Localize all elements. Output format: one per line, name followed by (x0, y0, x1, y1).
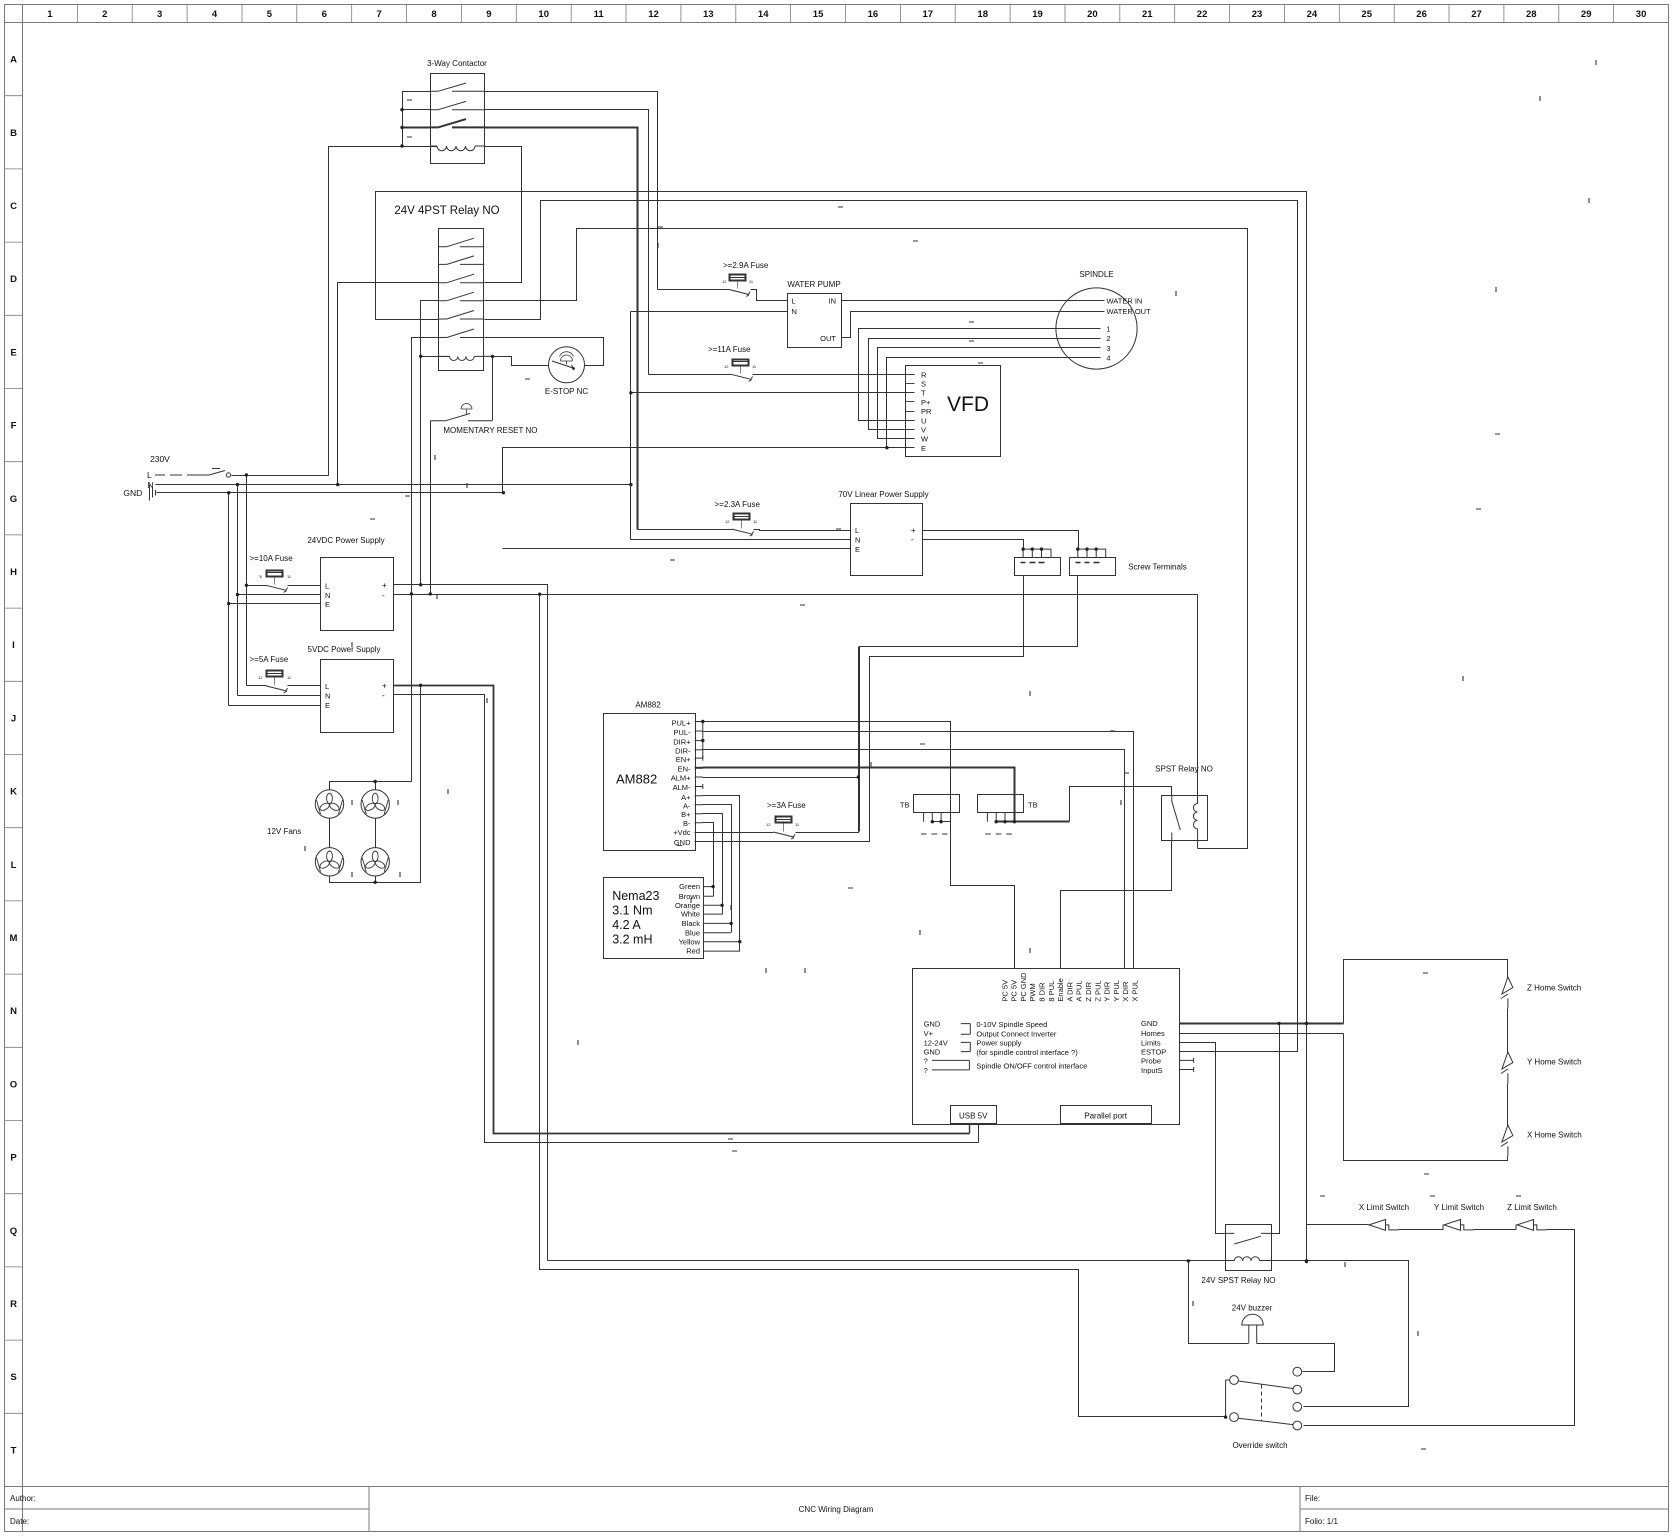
svg-text:Parallel port: Parallel port (1084, 1112, 1127, 1121)
svg-text:24V buzzer: 24V buzzer (1232, 1304, 1273, 1313)
wire N rail to relay pole3 left (338, 283, 439, 485)
AM882 driver box (604, 714, 696, 851)
svg-text:1: 1 (47, 9, 53, 20)
override switch link dashed (1261, 1385, 1263, 1422)
E-STOP NC pushbutton (549, 347, 585, 383)
override switch blades (1238, 1381, 1293, 1425)
svg-text:W: W (921, 435, 929, 444)
wire Y to Z limit (1474, 1229, 1517, 1231)
svg-text:ALM+: ALM+ (671, 774, 691, 783)
fan M4 (361, 848, 389, 876)
wire relay coil left tap (421, 356, 450, 358)
wire TB2 pins to SPST relay switch top (997, 821, 1070, 823)
svg-text:E: E (855, 545, 860, 554)
wire fans top bus to 24V- rail (330, 782, 412, 790)
svg-text:GND: GND (924, 1019, 941, 1028)
wire reset left to 24V- bus (430, 421, 432, 594)
wire X to Y limit (1399, 1229, 1444, 1231)
svg-text:PR: PR (921, 407, 932, 416)
svg-text:D: D (10, 274, 17, 285)
bracket spindle on/off (932, 1060, 969, 1070)
wire 70V+ to screw block2 (923, 531, 1079, 550)
wire Z limit to override contact 4 (1304, 1230, 1575, 1426)
wire A- to Black Blue pair (695, 805, 731, 933)
contactor switch pole 3 (430, 119, 484, 127)
wire spindle 2 to VFD V (869, 339, 1101, 430)
svg-text:15: 15 (813, 9, 824, 20)
svg-text:Orange: Orange (675, 901, 700, 910)
svg-text:?: ? (924, 1066, 928, 1075)
wire EN- to TB2 (695, 767, 703, 769)
USB 5V box (951, 1106, 997, 1124)
wire GND drop to supplies (228, 493, 230, 706)
relay K2 switch pole 6 (439, 329, 484, 338)
svg-text:24V SPST Relay NO: 24V SPST Relay NO (1201, 1276, 1275, 1285)
wire N to 24VDC N (238, 594, 321, 596)
svg-text:16: 16 (868, 9, 879, 20)
svg-text:+: + (382, 581, 387, 590)
fan M2 (361, 790, 389, 818)
svg-text:L: L (855, 526, 859, 535)
svg-text:X Home Switch: X Home Switch (1527, 1131, 1582, 1140)
svg-text:P: P (10, 1153, 17, 1164)
wire N rail to VFD T (631, 392, 915, 394)
svg-text:12: 12 (766, 822, 771, 827)
svg-text:L: L (325, 682, 329, 691)
svg-text:G: G (10, 494, 17, 505)
SPST relay NO box (1162, 796, 1208, 841)
svg-text:30: 30 (1636, 9, 1647, 20)
svg-text:GND: GND (674, 838, 691, 847)
svg-text:Y DIR: Y DIR (1103, 981, 1112, 1001)
70V linear power supply box (851, 504, 923, 576)
svg-text:9: 9 (486, 9, 491, 20)
svg-text:>=5A Fuse: >=5A Fuse (250, 655, 289, 664)
svg-text:PUL-: PUL- (673, 728, 691, 737)
svg-text:Red: Red (686, 947, 700, 956)
svg-text:E: E (325, 701, 330, 710)
svg-text:P+: P+ (921, 398, 931, 407)
wire number ticks (370, 100, 1521, 1449)
svg-text:Y Limit Switch: Y Limit Switch (1434, 1203, 1484, 1212)
contactor switch pole 1 (430, 83, 484, 91)
svg-text:2: 2 (102, 9, 107, 20)
svg-text:+: + (382, 682, 387, 691)
wire relay coil right to E-STOP and reset (493, 357, 549, 366)
svg-text:PC 5V: PC 5V (1010, 980, 1019, 1002)
svg-text:22: 22 (1197, 9, 1208, 20)
svg-text:-: - (911, 535, 914, 544)
svg-text:12: 12 (722, 279, 727, 284)
svg-text:Spindle ON/OFF control interfa: Spindle ON/OFF control interface (976, 1061, 1087, 1070)
svg-text:F: F (11, 421, 17, 432)
svg-text:23: 23 (1252, 9, 1263, 20)
breakout board box (913, 969, 1180, 1125)
svg-text:14: 14 (758, 9, 769, 20)
wire contactor pole3 out to 2.3A fuse feed (485, 128, 638, 530)
svg-text:27: 27 (1471, 9, 1482, 20)
svg-text:EN+: EN+ (676, 755, 691, 764)
svg-text:8: 8 (431, 9, 436, 20)
wire 24V+ rail to buzzer (1189, 1261, 1249, 1344)
svg-text:+Vdc: +Vdc (673, 828, 691, 837)
svg-text:AM882: AM882 (635, 701, 661, 710)
contactor coil (430, 146, 484, 151)
wire N rail to pump N (631, 311, 788, 313)
svg-text:R: R (921, 370, 927, 379)
Z home switch (1501, 977, 1513, 1008)
svg-text:IN: IN (829, 297, 837, 306)
svg-text:Z Home Switch: Z Home Switch (1527, 984, 1581, 993)
wire number tick verticals (305, 60, 1596, 1336)
wire reset right to relay coil right (492, 357, 494, 421)
wire relay pole5 left long loop to limit/GND rail (376, 192, 1307, 1262)
wire pump OUT to spindle WATER OUT (842, 312, 1105, 338)
wire N riser (630, 312, 632, 540)
wire spindle 1 to VFD U (859, 329, 1101, 421)
svg-text:S: S (10, 1372, 16, 1383)
svg-text:4: 4 (212, 9, 218, 20)
wire spindle 3 to VFD W (878, 348, 1101, 439)
wire breakout GND to 24V SPST relay right (1271, 1024, 1280, 1234)
svg-text:File:: File: (1305, 1494, 1320, 1503)
svg-text:B-: B- (683, 819, 691, 828)
svg-text:Z Limit Switch: Z Limit Switch (1507, 1203, 1557, 1212)
wire PUL+ DIR+ EN+ jumper (695, 722, 703, 759)
contactor left rail (403, 92, 431, 147)
wire relay pole6 left to 24V- bus (412, 338, 439, 782)
svg-text:Z PUL: Z PUL (1093, 980, 1102, 1001)
bracket power supply (961, 1042, 971, 1051)
svg-text:L: L (147, 470, 152, 480)
wire contactor coil right to relay pole3 (485, 147, 522, 283)
svg-text:A PUL: A PUL (1075, 980, 1084, 1001)
wire N to 5VDC N (238, 695, 321, 697)
svg-text:N: N (325, 591, 330, 600)
svg-text:E-STOP NC: E-STOP NC (545, 387, 588, 396)
svg-text:12V Fans: 12V Fans (267, 827, 301, 836)
svg-text:2: 2 (1106, 334, 1110, 343)
svg-text:Author:: Author: (10, 1494, 36, 1503)
water pump box (788, 294, 842, 348)
svg-text:TB: TB (1028, 800, 1038, 809)
svg-text:PWM: PWM (1028, 983, 1037, 1001)
svg-text:ESTOP: ESTOP (1141, 1048, 1166, 1057)
svg-text:WATER PUMP: WATER PUMP (787, 280, 840, 289)
wire screw block1 bottom to AM882 GND riser (695, 576, 1024, 842)
Z limit switch (1516, 1220, 1547, 1231)
svg-text:WATER IN: WATER IN (1107, 297, 1143, 306)
svg-text:L: L (11, 860, 17, 871)
Parallel port box (1061, 1106, 1152, 1124)
svg-text:GND: GND (1141, 1019, 1158, 1028)
ground symbol (150, 485, 156, 501)
svg-text:12: 12 (648, 9, 659, 20)
wire GND to 5VDC E (229, 705, 321, 707)
wire GND to 70V E (503, 548, 851, 550)
wire L to riser (232, 475, 329, 477)
svg-text:3: 3 (157, 9, 162, 20)
wire L with disconnect switch (155, 474, 209, 476)
svg-text:>=2.3A Fuse: >=2.3A Fuse (715, 500, 761, 509)
3-way contactor K1 box (431, 74, 485, 164)
Y home switch (1501, 1052, 1513, 1083)
svg-text:SPST Relay NO: SPST Relay NO (1155, 765, 1213, 774)
wire DIR- to breakout X DIR (695, 749, 703, 751)
svg-text:C: C (10, 201, 17, 212)
svg-text:White: White (681, 910, 700, 919)
wire 5VDC - to USB bus (394, 695, 979, 1143)
svg-text:25: 25 (1361, 9, 1372, 20)
svg-text:7: 7 (376, 9, 381, 20)
svg-text:USB 5V: USB 5V (959, 1112, 988, 1121)
svg-text:Override switch: Override switch (1232, 1441, 1287, 1450)
terminal block TB2 (978, 795, 1024, 813)
fuse 11A (733, 360, 749, 366)
svg-text:PUL+: PUL+ (672, 719, 692, 728)
fuse 3A (776, 817, 792, 823)
svg-text:Homes: Homes (1141, 1029, 1165, 1038)
svg-text:T: T (11, 1445, 17, 1456)
svg-text:24: 24 (1307, 9, 1318, 20)
wire spindle 4 to VFD E and ground bus (887, 358, 1101, 448)
svg-text:20: 20 (1087, 9, 1098, 20)
wire 70V- to screw block1 (923, 540, 1024, 550)
svg-text:18: 18 (977, 9, 988, 20)
svg-text:12: 12 (725, 519, 730, 524)
terminal block TB1 (914, 795, 960, 813)
wire N rail to 70V N (631, 539, 851, 541)
svg-text:J: J (11, 713, 16, 724)
override switch left terminals (1230, 1376, 1239, 1385)
wire contactor pole3 through 2.3A fuse to 70V L (638, 529, 733, 531)
svg-text:10: 10 (538, 9, 549, 20)
svg-text:6: 6 (322, 9, 327, 20)
wire PUL+ to TB1 and breakout PC5V (703, 722, 1015, 969)
svg-text:T: T (921, 389, 926, 398)
svg-text:11: 11 (594, 9, 605, 20)
svg-text:OUT: OUT (820, 334, 836, 343)
contactor switch pole 2 (430, 101, 484, 109)
svg-text:R: R (10, 1299, 17, 1310)
wire +Vdc through 3A fuse to 70V+ riser (695, 832, 774, 834)
svg-text:29: 29 (1581, 9, 1592, 20)
wire fan column links (329, 819, 331, 848)
svg-text:E: E (10, 347, 16, 358)
fuse 2.3A (734, 514, 750, 520)
svg-text:VFD: VFD (947, 393, 989, 416)
SPST relay coil (1193, 804, 1197, 849)
wire Z to Y home switch (1507, 1009, 1509, 1053)
wire relay pole4 left to 24V+ rail (421, 301, 439, 585)
wire limit chain from GND rail (1307, 1225, 1369, 1262)
svg-text:GND: GND (123, 488, 142, 498)
spindle circle (1056, 288, 1137, 369)
wire ground bus to VFD E (503, 448, 915, 493)
svg-text:Z DIR: Z DIR (1084, 981, 1093, 1001)
wire 10A fuse to 24VDC L (247, 585, 267, 587)
svg-text:GND: GND (924, 1047, 941, 1056)
wire relay pole6 right to E-STOP loop (485, 338, 604, 366)
svg-text:I: I (12, 640, 15, 651)
svg-text:3: 3 (1106, 344, 1110, 353)
svg-text:12: 12 (724, 364, 729, 369)
VFD box (906, 366, 1001, 457)
svg-text:>=3A Fuse: >=3A Fuse (767, 801, 806, 810)
svg-text:12: 12 (258, 675, 263, 680)
X home switch (1501, 1125, 1513, 1156)
svg-text:E: E (325, 600, 330, 609)
wire contactor pole1 through 2.9A fuse to pump L (658, 289, 729, 291)
svg-text:70V Linear Power Supply: 70V Linear Power Supply (838, 490, 928, 499)
svg-text:PC 5V: PC 5V (1000, 980, 1009, 1002)
wire SPST switch bottom to breakout Enable (1061, 841, 1172, 969)
wire 24VDC - bus to SPST relay coil (394, 595, 1198, 804)
wire buzzer right leg to override contact 1 (1257, 1344, 1335, 1372)
svg-text:Nema23: Nema23 (612, 889, 659, 903)
svg-text:X PUL: X PUL (1131, 980, 1140, 1002)
svg-text:PC GND: PC GND (1019, 972, 1028, 1002)
svg-text:Screw Terminals: Screw Terminals (1128, 563, 1187, 572)
relay K2 coil (439, 356, 493, 360)
svg-text:+: + (911, 526, 916, 535)
svg-text:A: A (10, 55, 17, 66)
svg-text:Green: Green (679, 882, 700, 891)
svg-text:N: N (325, 692, 330, 701)
svg-text:17: 17 (923, 9, 934, 20)
wire PUL- to breakout X PUL (695, 730, 703, 732)
fan M1 (315, 790, 343, 818)
momentary reset NO pushbutton (430, 414, 492, 421)
svg-text:3.2 mH: 3.2 mH (612, 933, 652, 947)
24V 4PST relay K2 box (439, 229, 484, 371)
24V SPST relay switch (1225, 1233, 1271, 1244)
svg-text:Output Connect Inverter: Output Connect Inverter (976, 1029, 1057, 1038)
svg-text:L: L (325, 582, 329, 591)
svg-text:DIR-: DIR- (675, 746, 691, 755)
AM882 GND pin tick (677, 845, 683, 847)
svg-text:230V: 230V (150, 454, 170, 464)
svg-text:M: M (10, 933, 18, 944)
wire contactor pole2 through 11A fuse to VFD R (649, 374, 732, 376)
svg-text:24V 4PST Relay NO: 24V 4PST Relay NO (394, 205, 499, 217)
wire L rail to contactor (329, 147, 438, 476)
screw terminal block 2 (1070, 558, 1116, 576)
wire Y to X home switch (1507, 1084, 1509, 1126)
svg-text:V: V (921, 426, 926, 435)
SPST relay switch blade (1172, 795, 1181, 840)
svg-text:Yellow: Yellow (679, 937, 701, 946)
5VDC power supply box (321, 660, 394, 733)
svg-text:-: - (382, 591, 385, 600)
svg-text:>=10A Fuse: >=10A Fuse (250, 554, 294, 563)
svg-text:Date:: Date: (10, 1517, 29, 1526)
svg-text:21: 21 (1142, 9, 1153, 20)
relay K2 switch pole 2 (439, 256, 484, 265)
svg-text:V+: V+ (924, 1029, 934, 1038)
svg-text:Folio: 1/1: Folio: 1/1 (1305, 1517, 1338, 1526)
X limit switch (1368, 1220, 1399, 1231)
override switch right terminals (1293, 1367, 1302, 1376)
svg-text:U: U (921, 416, 926, 425)
wire USB5V stub to thick 5V bus (969, 1125, 971, 1134)
svg-text:24VDC Power Supply: 24VDC Power Supply (307, 536, 384, 545)
wire N bus (156, 484, 631, 486)
fuse 10A (267, 571, 283, 577)
wire breakout Homes to home loop (1180, 1033, 1344, 1035)
svg-text:Q: Q (10, 1226, 17, 1237)
svg-text:↯: ↯ (259, 574, 262, 579)
wire contactor pole1 out to 2.9A fuse feed (485, 92, 658, 290)
wire 24VDC + output (394, 585, 548, 1261)
svg-text:3-Way Contactor: 3-Way Contactor (427, 59, 487, 68)
fuse 5A (267, 671, 283, 677)
svg-text:8 DIR: 8 DIR (1038, 982, 1047, 1002)
wire breakout GND to home loop (1180, 1023, 1344, 1025)
svg-text:E: E (921, 444, 926, 453)
24VDC power supply box (321, 558, 394, 631)
wire ALM+ to +Vdc riser (695, 776, 703, 778)
svg-text:L: L (792, 297, 796, 306)
wire L drop to 10A fuse (246, 476, 248, 686)
svg-text:CNC Wiring Diagram: CNC Wiring Diagram (799, 1505, 874, 1514)
wire GND to 24VDC E (229, 603, 321, 605)
wire contactor pole2 out to VFD R feed (485, 110, 649, 375)
svg-text:N: N (792, 307, 797, 316)
wire fans bottom bus to 5V+ rail (330, 686, 421, 883)
svg-text:SPINDLE: SPINDLE (1079, 270, 1113, 279)
wire 24V+ rail to coil (548, 1260, 1235, 1262)
svg-text:>=11A Fuse: >=11A Fuse (708, 345, 751, 354)
svg-text:28: 28 (1526, 9, 1537, 20)
wire relay pole5 right to breakout ESTOP (485, 201, 1298, 1052)
wire screw block2 bottom to 3A fuse riser (860, 576, 1078, 832)
svg-text:X Limit Switch: X Limit Switch (1359, 1203, 1409, 1212)
svg-text:ALM-: ALM- (673, 783, 691, 792)
svg-text:O: O (10, 1079, 17, 1090)
svg-text:WATER OUT: WATER OUT (1107, 307, 1152, 316)
wire 24V- branch to override switch (540, 595, 1226, 1417)
wire B+ to Orange White pair (695, 814, 722, 914)
svg-text:A-: A- (683, 801, 691, 810)
svg-text:12-24V: 12-24V (924, 1039, 948, 1048)
svg-text:Y PUL: Y PUL (1112, 980, 1121, 1002)
svg-text:K: K (10, 787, 17, 798)
breakout InputS stub (1179, 1067, 1193, 1072)
svg-text:?: ? (924, 1056, 928, 1065)
svg-text:4.2 A: 4.2 A (612, 918, 641, 932)
24V buzzer symbol (1242, 1314, 1263, 1325)
svg-text:InputS: InputS (1141, 1066, 1163, 1075)
svg-text:DIR+: DIR+ (673, 738, 691, 747)
VFD pin stubs (906, 374, 915, 376)
wire USB5V stub to 5V- bus (978, 1125, 980, 1143)
svg-text:TB: TB (900, 800, 910, 809)
svg-text:Enable: Enable (1056, 978, 1065, 1001)
relay K2 switch pole 4 (439, 292, 484, 301)
svg-text:X DIR: X DIR (1121, 981, 1130, 1002)
relay K2 switch pole 1 (439, 238, 484, 247)
screw terminal block 1 (1015, 558, 1061, 576)
svg-text:Probe: Probe (1141, 1057, 1161, 1066)
wire N drop to supplies (237, 485, 239, 696)
svg-text:4: 4 (1106, 354, 1110, 363)
fan M3 (315, 848, 343, 876)
relay K2 switch pole 3 (439, 274, 484, 283)
fuse 2.9A (730, 275, 746, 281)
Nema23 motor box (604, 878, 704, 959)
svg-text:Power supply: Power supply (976, 1039, 1021, 1048)
